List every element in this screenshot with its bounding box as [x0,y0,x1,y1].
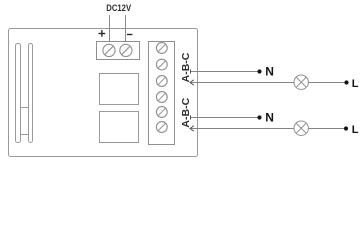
svg-text:A-B-C: A-B-C [180,97,192,127]
svg-text:N: N [265,111,274,125]
svg-text:L: L [352,124,359,136]
svg-text:A-B-C: A-B-C [180,52,192,82]
svg-text:DC12V: DC12V [106,3,131,13]
svg-text:L: L [352,78,359,90]
svg-text:N: N [265,65,274,79]
